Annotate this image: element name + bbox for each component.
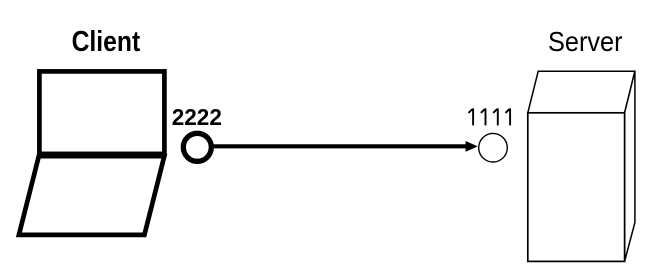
svg-text:Client: Client: [72, 26, 141, 58]
server box top face: [528, 71, 635, 113]
svg-text:2222: 2222: [172, 104, 222, 130]
client laptop screen: [39, 71, 164, 153]
svg-text:Server: Server: [548, 26, 623, 57]
client laptop base: [19, 156, 164, 235]
server box right side face: [625, 71, 635, 261]
port 1111 label: [469, 108, 511, 125]
port 1111 socket circle: [479, 133, 508, 162]
connection arrowhead: [466, 141, 478, 152]
wire: connection arrow shaft: [213, 144, 467, 148]
port 2222 socket circle: [183, 133, 211, 161]
server box front face: [528, 113, 625, 262]
